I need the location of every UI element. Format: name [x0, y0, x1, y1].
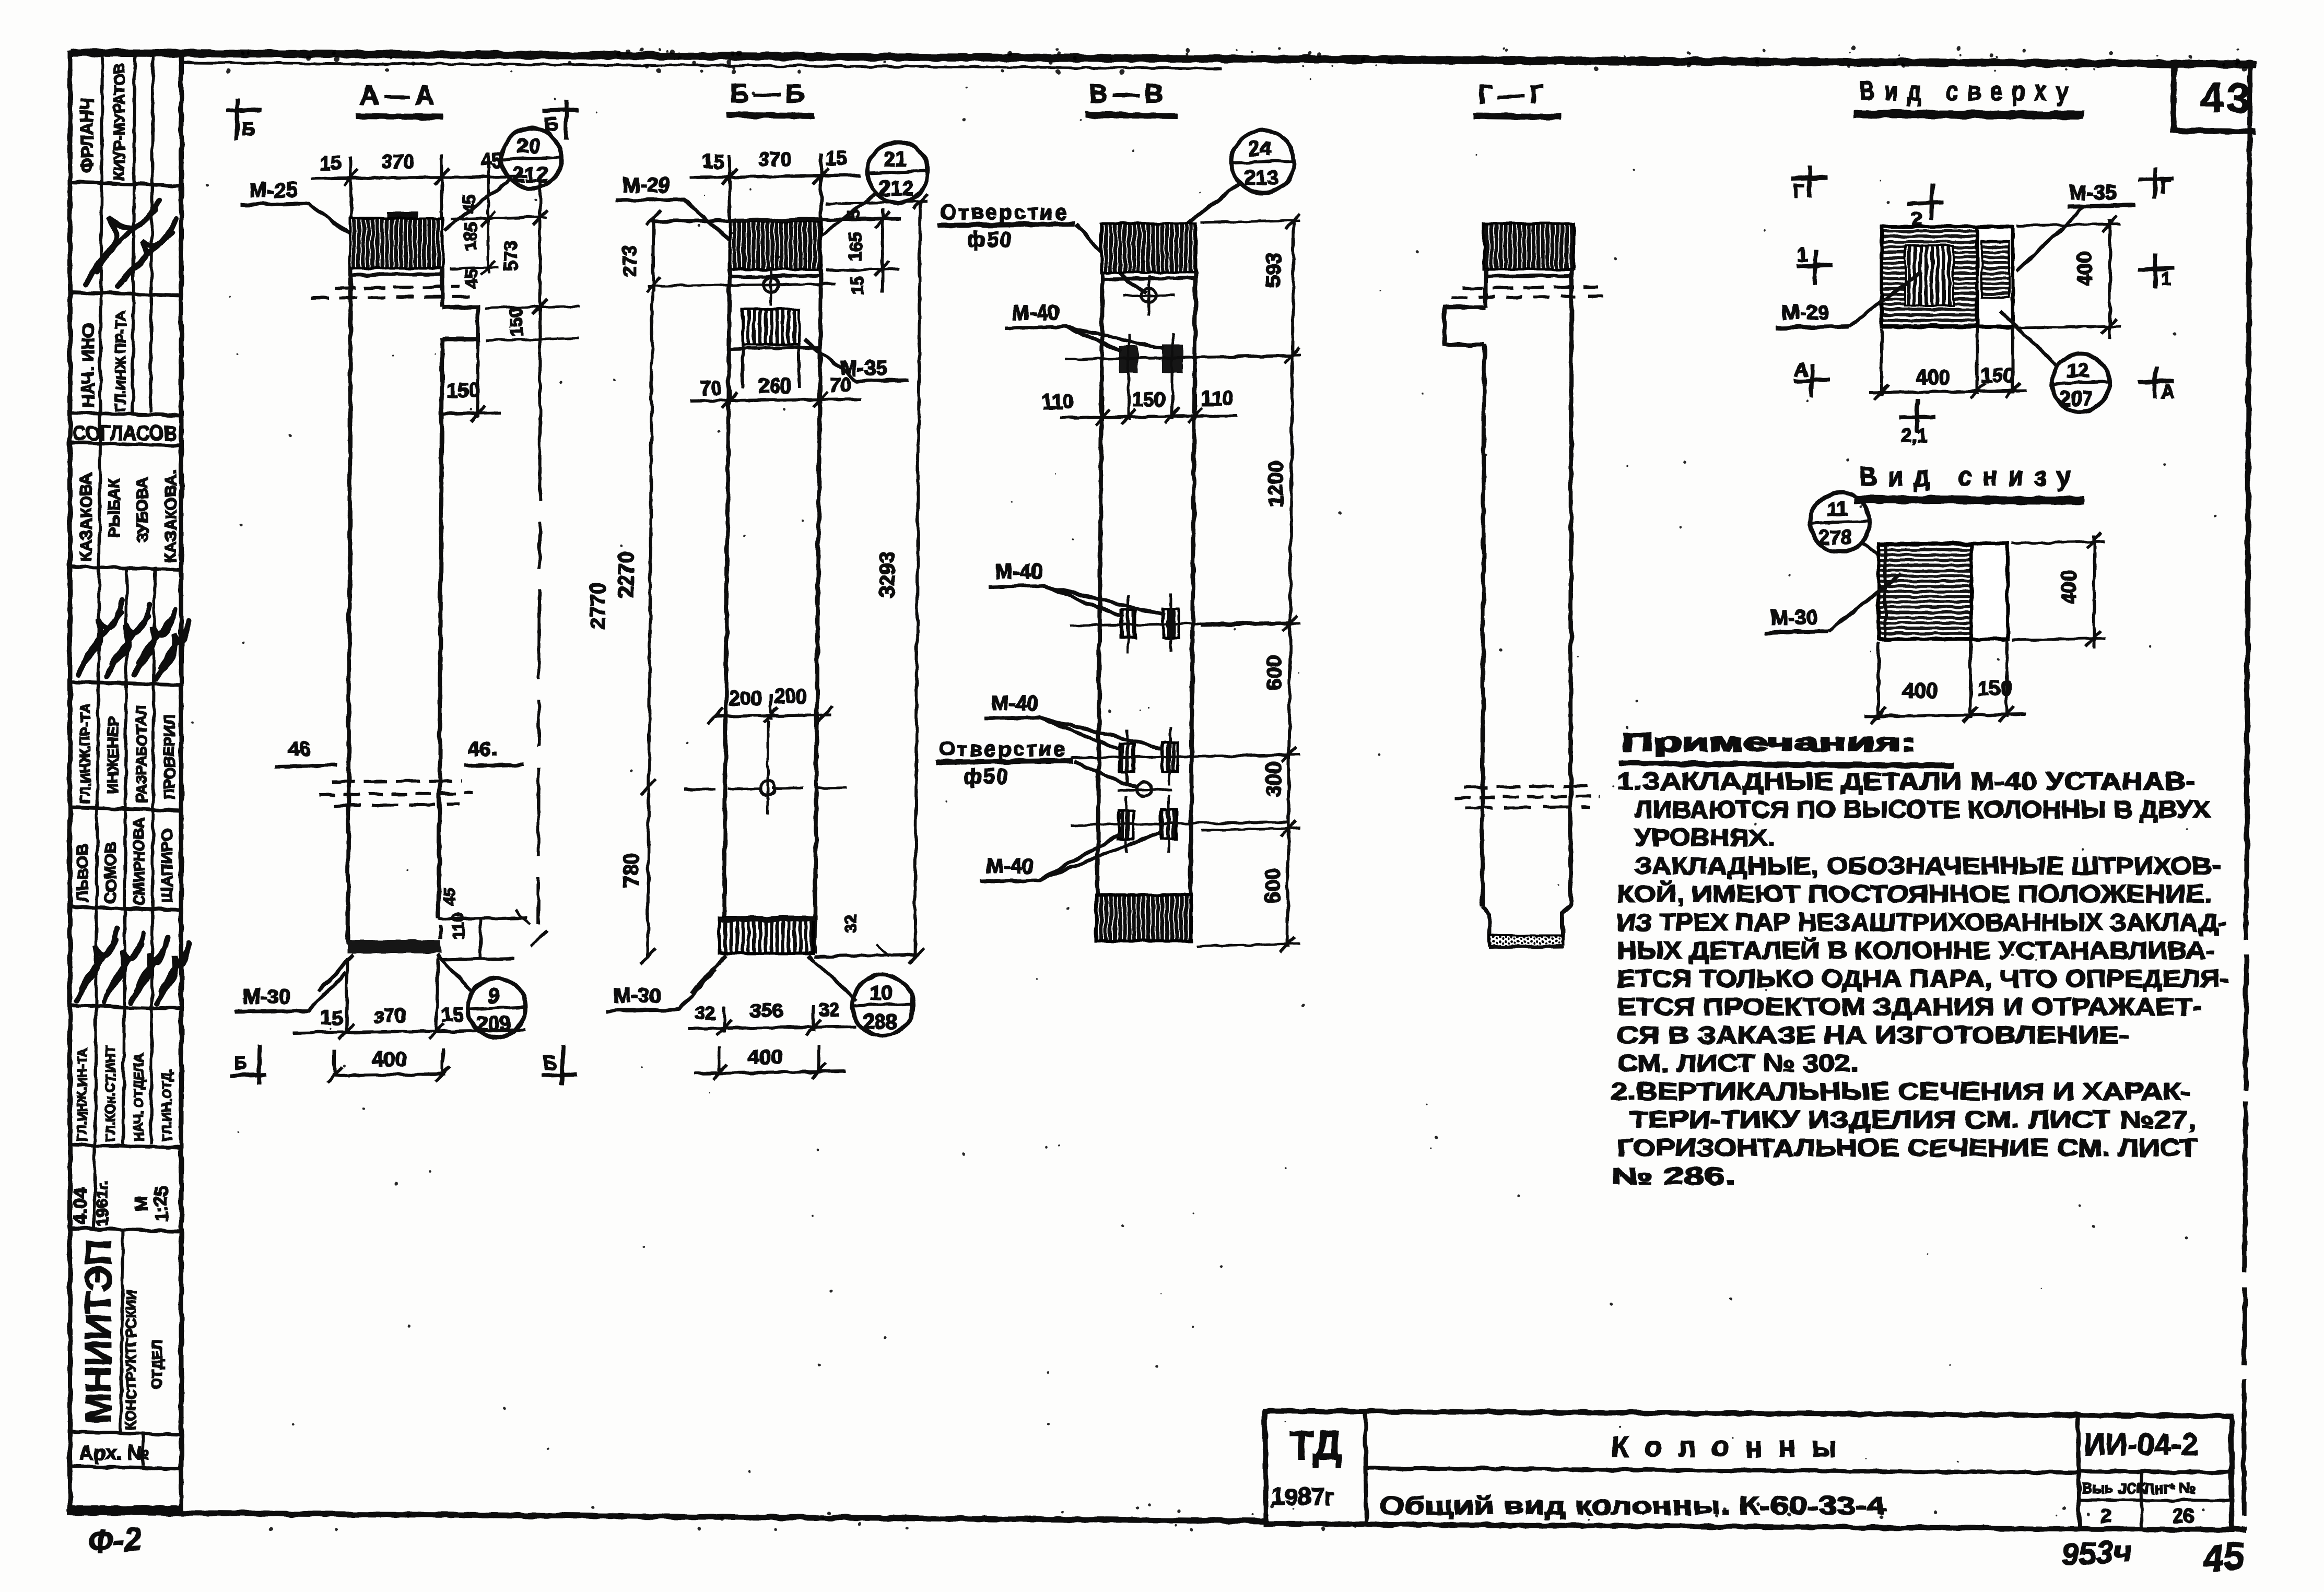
svg-text:32: 32 [841, 914, 860, 934]
svg-text:КАЗАКОВА.: КАЗАКОВА. [161, 470, 180, 563]
svg-text:278: 278 [1818, 527, 1851, 549]
svg-text:Б—Б: Б—Б [730, 79, 809, 108]
svg-text:26: 26 [2173, 1505, 2194, 1527]
svg-text:45: 45 [440, 887, 459, 906]
svg-text:ИЗ ТРЕХ ПАР НЕЗАШТРИХОВАННЫХ З: ИЗ ТРЕХ ПАР НЕЗАШТРИХОВАННЫХ ЗАКЛАД- [1617, 909, 2227, 936]
svg-text:45: 45 [2200, 1535, 2247, 1580]
svg-text:Лнг* №: Лнг* № [2144, 1480, 2196, 1496]
svg-text:СМИРНОВА: СМИРНОВА [131, 818, 148, 906]
svg-text:М-29: М-29 [623, 174, 670, 197]
svg-text:953ч: 953ч [2060, 1534, 2132, 1572]
svg-text:150: 150 [447, 380, 479, 402]
svg-text:600: 600 [1261, 868, 1284, 903]
svg-text:ЗАКЛАДНЫЕ, ОБОЗНАЧЕННЫЕ ШТРИХО: ЗАКЛАДНЫЕ, ОБОЗНАЧЕННЫЕ ШТРИХОВ- [1635, 852, 2221, 879]
svg-text:1961г.: 1961г. [93, 1181, 111, 1226]
svg-text:ГЛ.КОн.СТ.ИНТ: ГЛ.КОн.СТ.ИНТ [103, 1046, 118, 1141]
svg-text:400: 400 [372, 1048, 407, 1071]
svg-text:ЕТСЯ ПРОЕКТОМ ЗДАНИЯ И ОТРАЖАЕ: ЕТСЯ ПРОЕКТОМ ЗДАНИЯ И ОТРАЖАЕТ- [1617, 993, 2202, 1020]
svg-text:Примечания:: Примечания: [1621, 729, 1916, 757]
svg-text:М-40: М-40 [991, 692, 1039, 715]
svg-text:46: 46 [288, 738, 311, 761]
svg-text:213: 213 [1244, 167, 1279, 190]
svg-text:А: А [1794, 359, 1808, 380]
svg-text:12: 12 [2067, 360, 2089, 382]
svg-text:В—В: В—В [1089, 79, 1168, 108]
svg-text:600: 600 [1263, 655, 1286, 690]
svg-text:РАЗРАБОТАЛ: РАЗРАБОТАЛ [133, 705, 149, 803]
svg-text:45: 45 [462, 269, 481, 288]
svg-text:45: 45 [480, 150, 502, 172]
svg-text:780: 780 [620, 853, 643, 888]
svg-text:А—А: А—А [360, 81, 439, 110]
svg-text:Ф-2: Ф-2 [87, 1521, 143, 1561]
svg-text:150: 150 [1132, 389, 1165, 411]
svg-text:32: 32 [695, 1002, 715, 1023]
svg-text:СЯ В ЗАКАЗЕ НА ИЗГОТОВЛЕНИЕ-: СЯ В ЗАКАЗЕ НА ИЗГОТОВЛЕНИЕ- [1617, 1021, 2129, 1048]
svg-text:46.: 46. [468, 738, 497, 761]
svg-text:2.ВЕРТИКАЛЬНЫЕ СЕЧЕНИЯ И ХАРАК: 2.ВЕРТИКАЛЬНЫЕ СЕЧЕНИЯ И ХАРАК- [1611, 1078, 2191, 1105]
svg-text:32: 32 [819, 999, 840, 1020]
svg-text:15: 15 [847, 276, 866, 295]
svg-text:ТД: ТД [1289, 1422, 1342, 1468]
svg-text:Арх. №: Арх. № [79, 1442, 150, 1464]
svg-text:15: 15 [825, 148, 847, 170]
svg-text:10: 10 [870, 982, 893, 1005]
svg-text:200: 200 [774, 686, 807, 707]
svg-text:185: 185 [461, 222, 480, 251]
svg-text:МНИИТЭП: МНИИТЭП [78, 1240, 119, 1423]
svg-text:М-29: М-29 [1782, 301, 1829, 324]
svg-text:Колонны: Колонны [1611, 1430, 1852, 1463]
svg-text:70: 70 [700, 378, 722, 399]
svg-text:ШАПИРО: ШАПИРО [158, 829, 176, 903]
svg-text:15: 15 [320, 152, 342, 174]
svg-text:М-25: М-25 [250, 179, 297, 202]
svg-text:Вид сверху: Вид сверху [1859, 76, 2077, 107]
svg-text:КОНСТРУКТГРСКИИ: КОНСТРУКТГРСКИИ [123, 1290, 139, 1430]
svg-text:ГЛ.ИНЖ.ИН-ТА: ГЛ.ИНЖ.ИН-ТА [75, 1047, 90, 1141]
svg-text:2,1: 2,1 [1901, 424, 1927, 446]
svg-text:1: 1 [1798, 244, 1808, 265]
svg-text:2770: 2770 [586, 583, 609, 629]
svg-text:№ 286.: № 286. [1611, 1162, 1735, 1189]
svg-text:2270: 2270 [615, 551, 638, 598]
svg-text:Вид снизу: Вид снизу [1859, 462, 2081, 492]
svg-text:ИИ-04-2: ИИ-04-2 [2084, 1428, 2198, 1461]
svg-text:1: 1 [2161, 268, 2172, 289]
svg-text:15: 15 [702, 151, 724, 173]
svg-text:СМ. ЛИСТ № 302.: СМ. ЛИСТ № 302. [1617, 1049, 1858, 1077]
svg-text:М-30: М-30 [243, 985, 290, 1008]
svg-text:356: 356 [750, 1000, 783, 1022]
svg-text:НЫХ ДЕТАЛЕЙ В КОЛОННЕ УСТАНАВЛ: НЫХ ДЕТАЛЕЙ В КОЛОННЕ УСТАНАВЛИВА- [1617, 937, 2215, 964]
svg-text:110: 110 [1201, 388, 1233, 410]
svg-text:УРОВНЯХ.: УРОВНЯХ. [1635, 824, 1775, 851]
svg-text:М-30: М-30 [614, 984, 661, 1007]
svg-text:400: 400 [1903, 679, 1938, 702]
svg-text:1987г: 1987г [1271, 1483, 1335, 1510]
svg-text:М-40: М-40 [1012, 301, 1060, 324]
svg-text:400: 400 [748, 1046, 783, 1069]
svg-text:3293: 3293 [876, 551, 899, 598]
svg-text:ИНЖЕНЕР: ИНЖЕНЕР [105, 717, 122, 794]
svg-text:ЛЬВОВ: ЛЬВОВ [73, 844, 91, 902]
svg-text:150: 150 [1980, 364, 2015, 387]
svg-text:ГОРИЗОНТАЛЬНОЕ СЕЧЕНИЕ СМ. ЛИС: ГОРИЗОНТАЛЬНОЕ СЕЧЕНИЕ СМ. ЛИСТ [1617, 1134, 2198, 1161]
svg-text:ФРЛАНЧ: ФРЛАНЧ [77, 98, 97, 172]
svg-text:Г: Г [1794, 180, 1804, 202]
svg-text:165: 165 [846, 232, 865, 261]
svg-text:ГЛ.ИНЖ ПР-ТА: ГЛ.ИНЖ ПР-ТА [113, 311, 128, 411]
svg-text:ЛИВАЮТСЯ ПО ВЫСОТЕ КОЛОННЫ В Д: ЛИВАЮТСЯ ПО ВЫСОТЕ КОЛОННЫ В ДВУХ [1635, 796, 2210, 823]
svg-text:370: 370 [381, 151, 414, 173]
svg-text:288: 288 [863, 1010, 898, 1033]
svg-text:212: 212 [513, 163, 548, 186]
svg-text:РЫБАК: РЫБАК [105, 478, 123, 538]
svg-text:Отверстие: Отверстие [940, 201, 1069, 224]
svg-text:70: 70 [829, 374, 851, 396]
svg-text:ПРОВЕРИЛ: ПРОВЕРИЛ [161, 715, 178, 800]
svg-text:Г: Г [2160, 176, 2170, 197]
svg-text:21: 21 [884, 148, 907, 171]
svg-text:400: 400 [1916, 366, 1951, 389]
svg-text:М-30: М-30 [1770, 606, 1818, 629]
svg-text:М: М [132, 1197, 151, 1211]
svg-text:20: 20 [517, 134, 541, 157]
svg-text:Выь JCK: Выь JCK [2082, 1480, 2147, 1496]
svg-text:ОТДЕЛ: ОТДЕЛ [149, 1340, 165, 1389]
svg-text:з70: з70 [374, 1005, 406, 1027]
svg-text:370: 370 [758, 149, 791, 171]
svg-text:9: 9 [488, 984, 499, 1007]
svg-text:1.ЗАКЛАДНЫЕ ДЕТАЛИ М-40 УСТАНА: 1.ЗАКЛАДНЫЕ ДЕТАЛИ М-40 УСТАНАВ- [1617, 768, 2196, 795]
svg-text:150: 150 [507, 307, 526, 337]
svg-text:ГЛ.ИН.ОТД.: ГЛ.ИН.ОТД. [160, 1068, 174, 1141]
svg-text:11: 11 [1827, 499, 1848, 521]
svg-text:ЗУБОВА: ЗУБОВА [133, 477, 151, 543]
svg-text:15: 15 [321, 1007, 343, 1029]
svg-text:СОГЛАСОВ: СОГЛАСОВ [73, 422, 177, 444]
svg-text:М-40: М-40 [995, 560, 1042, 583]
svg-text:А: А [2161, 381, 2175, 402]
svg-text:207: 207 [2060, 388, 2093, 410]
svg-text:1200: 1200 [1264, 461, 1287, 508]
svg-text:КИУР-МУРАТОВ: КИУР-МУРАТОВ [111, 63, 128, 180]
svg-text:Г—Г: Г—Г [1478, 80, 1550, 109]
svg-text:593: 593 [1262, 252, 1285, 287]
svg-text:212: 212 [879, 177, 914, 200]
svg-text:ф50: ф50 [967, 228, 1014, 251]
svg-text:5: 5 [844, 210, 863, 219]
svg-text:209: 209 [476, 1012, 511, 1035]
svg-text:НАЧ. ОТДЕЛА: НАЧ. ОТДЕЛА [132, 1053, 146, 1141]
svg-text:Б: Б [543, 1052, 557, 1074]
svg-text:2: 2 [2100, 1505, 2111, 1527]
svg-text:М-35: М-35 [2069, 181, 2117, 204]
svg-text:КАЗАКОВА: КАЗАКОВА [77, 473, 95, 561]
svg-text:110: 110 [1042, 391, 1074, 413]
svg-text:573: 573 [500, 240, 521, 272]
svg-text:Б: Б [234, 1052, 248, 1074]
svg-text:ГЛ.ИНЖ.ПР-ТА: ГЛ.ИНЖ.ПР-ТА [77, 703, 93, 804]
svg-text:1:25: 1:25 [151, 1186, 171, 1222]
svg-text:ЕТСЯ ТОЛЬКО ОДНА ПАРА, ЧТО ОПР: ЕТСЯ ТОЛЬКО ОДНА ПАРА, ЧТО ОПРЕДЕЛЯ- [1617, 965, 2229, 992]
svg-text:Б: Б [241, 119, 255, 140]
svg-text:260: 260 [758, 375, 791, 397]
svg-text:ТЕРИ-ТИКУ ИЗДЕЛИЯ СМ. ЛИСТ №27: ТЕРИ-ТИКУ ИЗДЕЛИЯ СМ. ЛИСТ №27, [1629, 1106, 2196, 1133]
svg-text:15: 15 [441, 1004, 463, 1026]
svg-text:М-40: М-40 [986, 855, 1034, 878]
svg-text:400: 400 [2058, 570, 2081, 605]
svg-text:300: 300 [1262, 762, 1285, 797]
svg-text:Общий вид колонны. К-60-33-4: Общий вид колонны. К-60-33-4 [1379, 1492, 1885, 1520]
svg-text:45: 45 [460, 194, 479, 213]
svg-text:НАЧ. ИНО: НАЧ. ИНО [78, 324, 98, 407]
svg-text:4.04: 4.04 [69, 1188, 91, 1224]
svg-text:СОМОВ: СОМОВ [101, 842, 120, 903]
svg-text:273: 273 [619, 245, 640, 277]
svg-text:400: 400 [2073, 251, 2096, 286]
svg-text:24: 24 [1248, 137, 1272, 160]
svg-text:Отверстие: Отверстие [939, 738, 1067, 761]
svg-text:ф50: ф50 [964, 765, 1010, 788]
svg-text:110: 110 [449, 913, 467, 940]
svg-text:43: 43 [2200, 75, 2253, 121]
svg-text:КОЙ, ИМЕЮТ ПОСТОЯННОЕ ПОЛОЖЕНИ: КОЙ, ИМЕЮТ ПОСТОЯННОЕ ПОЛОЖЕНИЕ. [1617, 880, 2212, 907]
svg-text:200: 200 [729, 688, 762, 710]
